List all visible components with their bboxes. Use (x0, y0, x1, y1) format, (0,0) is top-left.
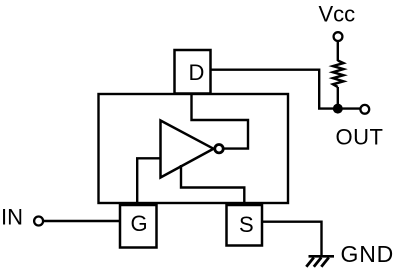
wire drain lead: D pin to OUT node (211, 70, 360, 109)
wire source lead: S pin to ground (262, 222, 322, 255)
wire resistor to OUT node (337, 87, 339, 109)
terminal IN (open circle) (34, 217, 43, 226)
svg-text:S: S (239, 212, 254, 237)
ground hatch stroke 1 (306, 258, 314, 267)
pin box S (227, 205, 263, 246)
wire Vcc terminal to resistor (337, 41, 339, 61)
inverter triangle (internal FET symbol) (161, 121, 214, 178)
terminal Vcc (open circle) (334, 32, 343, 41)
wire internal source net (181, 165, 244, 205)
svg-text:Vcc: Vcc (319, 1, 356, 26)
pin box G (120, 205, 157, 248)
MOSFET package outline U1 (99, 94, 289, 203)
svg-text:IN: IN (1, 205, 23, 230)
terminal OUT (open circle) (360, 105, 369, 114)
ground hatch stroke 2 (314, 258, 322, 267)
svg-text:OUT: OUT (336, 125, 384, 150)
wire IN lead (43, 220, 120, 222)
wire internal drain net (192, 92, 249, 149)
ground bar (309, 255, 335, 258)
pin box D (175, 50, 211, 94)
inversion bubble (215, 145, 223, 153)
wire internal gate net (137, 158, 160, 204)
resistor R1 (333, 61, 343, 88)
ground hatch stroke 3 (321, 258, 329, 267)
svg-text:D: D (189, 60, 205, 85)
svg-text:GND: GND (341, 241, 394, 267)
svg-text:G: G (131, 211, 148, 236)
junction dot OUT node (333, 104, 343, 114)
